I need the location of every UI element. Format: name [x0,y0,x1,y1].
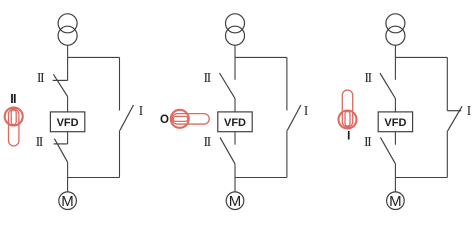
motor M2 [226,192,244,210]
svg-text:VFD: VFD [384,117,406,129]
svg-text:II: II [364,135,372,150]
svg-text:I: I [139,104,144,119]
VFD U1 [50,112,84,132]
wire [67,132,69,144]
wire [446,132,448,178]
contact II bottom (closed) [54,139,68,163]
wire [394,178,396,192]
svg-text:I: I [304,104,309,119]
wire [394,57,396,79]
contact II top (open) [220,73,236,99]
wire [394,99,396,112]
node B2 [235,177,287,179]
contact II bottom (open) [220,137,235,163]
svg-text:II: II [36,135,44,150]
svg-text:II: II [37,71,45,86]
wire [119,57,121,110]
svg-text:O: O [160,114,169,126]
svg-text:M: M [61,193,74,210]
transformer T3 [386,14,405,45]
node A3 [395,56,447,58]
node B1 [68,177,120,179]
svg-text:VFD: VFD [57,117,79,129]
svg-text:I: I [467,104,472,119]
transformer T1 [58,14,77,45]
svg-text:II: II [364,71,372,86]
svg-text:VFD: VFD [224,117,246,129]
node A2 [235,56,287,58]
svg-text:II: II [10,92,16,106]
wire [67,57,69,80]
wire [67,45,69,57]
VFD U2 [218,112,252,132]
contact II bottom (open) [380,137,395,163]
VFD U3 [378,112,412,132]
transformer T2 [226,14,245,45]
wire [234,57,236,79]
wire [234,132,236,145]
svg-text:M: M [389,193,402,210]
selector switch S3 (position I) [339,90,357,129]
svg-text:II: II [204,71,212,86]
motor M3 [387,192,405,210]
contact I bypass (closed) [447,106,462,131]
node A1 [68,56,120,58]
wire [67,97,69,112]
wire [286,130,288,177]
wire [286,57,288,110]
wire [234,45,236,57]
svg-text:II: II [204,135,212,150]
motor M1 [59,192,77,210]
wire [67,178,69,192]
wire [394,132,396,145]
wire [394,45,396,57]
wire [446,57,448,110]
wire [67,162,69,177]
contact II top (closed) [53,74,68,96]
svg-text:I: I [347,130,350,142]
selector switch S1 (position II) [5,108,23,147]
wire [234,99,236,112]
contact II top (open) [380,73,396,99]
node B3 [395,177,447,179]
contact I bypass (open) [287,105,301,130]
wire [394,164,396,178]
selector switch S2 (position O) [171,110,210,128]
wire [234,178,236,192]
wire [119,130,121,177]
contact I bypass (open) [120,105,134,130]
wire [234,164,236,178]
svg-text:M: M [229,193,242,210]
